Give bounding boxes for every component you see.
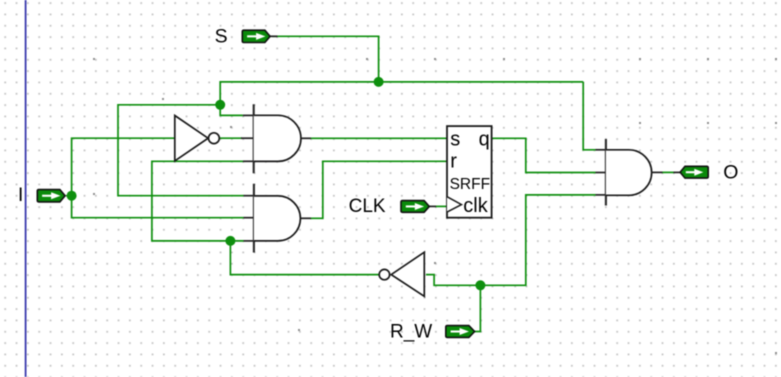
wire S to left vertical — [118, 105, 244, 196]
wire S pin to corner — [272, 36, 379, 82]
node S left junction — [215, 100, 225, 110]
svg-text:r: r — [450, 150, 457, 172]
pin I (input) — [37, 190, 65, 202]
wire NOT2 output to AND2 bottom input — [230, 241, 379, 275]
node I pin junction — [67, 191, 77, 201]
wire junction to AND3 bottom — [480, 195, 595, 285]
wire R_W pin up to junction — [475, 285, 481, 331]
svg-text:I: I — [18, 185, 23, 206]
pin R_W (input) — [446, 326, 475, 338]
AND3 input/output port stubs — [596, 149, 606, 151]
wire S horizontal bus — [220, 82, 583, 105]
wire NOT1 output to AND1 middle — [220, 137, 242, 139]
and-gate AND1 — [254, 104, 301, 173]
wire S to AND1 top input — [220, 105, 243, 116]
wire AND3 output to O pin — [662, 171, 674, 173]
inverter NOT1 — [175, 116, 220, 161]
AND1 input/output port stubs — [243, 114, 254, 116]
pin S (input) — [242, 30, 270, 42]
wire AND1 output to SRFF s — [311, 137, 448, 139]
wire I to NOT1 input — [66, 138, 174, 196]
and-gate AND2 — [254, 184, 301, 253]
wire SRFF q to AND3 middle — [492, 138, 596, 172]
svg-text:SRFF: SRFF — [450, 176, 490, 193]
flip-flop U1 SRFF — [447, 126, 492, 218]
pin port stubs (O, S, CLK) — [674, 171, 681, 173]
wire AND1 bottom input feed — [152, 161, 244, 241]
svg-text:O: O — [723, 162, 738, 184]
wire junction to NOT2 input — [426, 275, 480, 286]
darker grid dots (resample artifacts) — [93, 58, 777, 354]
canvas left boundary line — [25, 0, 27, 377]
node NOT2/AND2 junction — [225, 236, 235, 246]
and-gate AND3 — [606, 139, 652, 206]
svg-text:q: q — [479, 129, 490, 151]
wire S to AND3 top input — [583, 82, 595, 150]
svg-text:s: s — [450, 129, 460, 151]
node S bus junction — [374, 77, 384, 87]
inverter NOT2 (facing left) — [379, 252, 424, 296]
svg-text:R_W: R_W — [390, 322, 432, 343]
pin O (output) — [680, 166, 708, 178]
wire AND2 output to SRFF r — [311, 161, 448, 218]
node R_W junction — [475, 280, 485, 290]
svg-text:S: S — [215, 26, 228, 48]
svg-text:CLK: CLK — [349, 196, 386, 217]
clock input chevron — [447, 197, 462, 212]
AND2 input/output port stubs — [244, 195, 254, 197]
wire CLK pin to SRFF — [436, 205, 448, 207]
svg-text:clk: clk — [463, 195, 488, 217]
wire I to AND2 middle input — [72, 196, 244, 218]
pin CLK (input) — [401, 201, 429, 213]
